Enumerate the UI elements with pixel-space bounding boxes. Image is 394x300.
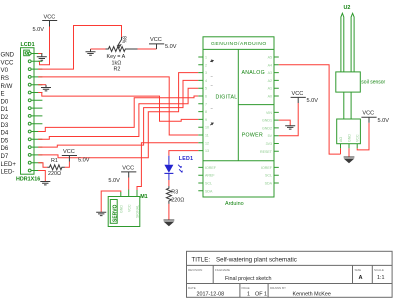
svg-text:SDA: SDA bbox=[205, 189, 213, 193]
wire servo VCC to VCC4 bbox=[128, 178, 130, 190]
svg-text:A3: A3 bbox=[268, 71, 272, 75]
wire module AO pin down to analog wire bbox=[340, 148, 342, 154]
svg-text:12: 12 bbox=[205, 141, 209, 145]
wire LCD GND pin to ground bbox=[38, 53, 42, 55]
svg-text:Final project sketch: Final project sketch bbox=[225, 276, 271, 282]
wire LCD R/W to ground bbox=[38, 84, 46, 86]
svg-text:DATE: DATE bbox=[188, 286, 196, 290]
wire servo GND to ground bbox=[101, 191, 121, 212]
wire LCD RS to Arduino pin11 bbox=[38, 77, 198, 135]
LCD pin stubs and hole circles bbox=[28, 52, 42, 172]
power VCC3 (5.0V) at R1 bbox=[62, 149, 90, 163]
svg-text:IOREF: IOREF bbox=[205, 166, 217, 170]
svg-text:3: 3 bbox=[205, 71, 207, 75]
connector LCD1 HDR1X16 bbox=[16, 42, 40, 183]
Arduino PWM tilde marks bbox=[210, 60, 213, 125]
wire module GND to ground bbox=[348, 148, 350, 157]
IC Arduino GENUINO/ARDUINO module bbox=[203, 37, 274, 207]
svg-text:AREF: AREF bbox=[205, 174, 215, 178]
svg-text:AO: AO bbox=[339, 137, 343, 142]
svg-text:7: 7 bbox=[205, 102, 207, 106]
svg-text:D3: D3 bbox=[1, 122, 9, 129]
resistor R1 220ohm bbox=[47, 158, 65, 177]
svg-text:SIZE: SIZE bbox=[355, 268, 362, 272]
svg-text:ANALOG: ANALOG bbox=[242, 70, 265, 76]
power VCC1 (5.0V) top-left bbox=[33, 15, 58, 34]
wire probes to module bbox=[344, 92, 351, 119]
svg-text:A1: A1 bbox=[268, 87, 272, 91]
svg-text:1: 1 bbox=[247, 292, 250, 298]
wire LCD D4 to Arduino pin6 bbox=[38, 96, 198, 132]
ground GND6 (below R3) bbox=[164, 220, 175, 226]
svg-text:VCC: VCC bbox=[122, 165, 134, 171]
Arduino bottom-left pin labels bbox=[205, 166, 217, 193]
svg-text:POWER: POWER bbox=[242, 133, 263, 139]
sensor module box (soil sensor amplifier) bbox=[337, 119, 361, 148]
svg-text:2: 2 bbox=[205, 63, 207, 67]
motor M1 servo bbox=[108, 194, 148, 227]
Arduino power pin labels bbox=[260, 111, 273, 154]
svg-text:5V: 5V bbox=[268, 134, 273, 138]
wire LCD LED+ to R1 bbox=[38, 163, 47, 168]
svg-text:220Ω: 220Ω bbox=[48, 171, 61, 177]
svg-text:LCD1: LCD1 bbox=[21, 42, 35, 48]
svg-text:VCC: VCC bbox=[150, 37, 162, 43]
potentiometer R2 1k Key=A bbox=[106, 36, 138, 73]
svg-text:GND1: GND1 bbox=[262, 119, 272, 123]
Arduino digital pin stubs (left) bbox=[198, 57, 203, 151]
svg-text:FILENAME: FILENAME bbox=[215, 268, 230, 272]
svg-text:5.0V: 5.0V bbox=[378, 118, 390, 124]
svg-text:U2: U2 bbox=[344, 5, 351, 11]
svg-text:9: 9 bbox=[205, 118, 207, 122]
svg-text:DIGITAL: DIGITAL bbox=[216, 95, 238, 101]
svg-text:M1: M1 bbox=[140, 194, 148, 200]
svg-text:R/W: R/W bbox=[1, 83, 13, 90]
Arduino digital pin number labels bbox=[205, 56, 209, 154]
svg-text:220Ω: 220Ω bbox=[171, 198, 184, 204]
svg-text:REVISION: REVISION bbox=[188, 268, 202, 272]
svg-text:Kenneth McKee: Kenneth McKee bbox=[293, 292, 331, 298]
svg-text:PAGE: PAGE bbox=[242, 286, 250, 290]
wire R3 to ground bbox=[168, 204, 170, 220]
svg-text:E: E bbox=[1, 91, 5, 98]
svg-text:Self-watering plant schematic: Self-watering plant schematic bbox=[216, 257, 297, 264]
Arduino bottom-left pin stubs bbox=[198, 167, 203, 190]
ground GND7 (module) bbox=[344, 157, 355, 163]
ground GND5 (servo) bbox=[96, 212, 106, 215]
power VCC2 (5.0V) at R2 bbox=[149, 37, 177, 50]
wire Arduino pin13 to LED1 bbox=[169, 151, 198, 156]
svg-text:D7: D7 bbox=[1, 153, 9, 160]
svg-text:SCL: SCL bbox=[265, 174, 272, 178]
sensor U2 soil sensor probes bbox=[336, 5, 386, 92]
svg-text:8: 8 bbox=[205, 110, 207, 114]
ground GND1 (at LCD GND pin) bbox=[37, 54, 47, 61]
svg-text:D6: D6 bbox=[1, 145, 9, 152]
svg-text:IOREF: IOREF bbox=[261, 166, 273, 170]
svg-text:GND2: GND2 bbox=[262, 126, 272, 130]
svg-text:5.0V: 5.0V bbox=[33, 27, 45, 33]
svg-text:5.0V: 5.0V bbox=[78, 158, 90, 164]
svg-text:VCC: VCC bbox=[1, 59, 14, 66]
Arduino analog pin labels bbox=[268, 56, 272, 99]
svg-text:2017-12-08: 2017-12-08 bbox=[197, 292, 225, 298]
svg-text:Arduino: Arduino bbox=[225, 201, 244, 207]
svg-text:GND: GND bbox=[1, 52, 15, 59]
svg-text:LED1: LED1 bbox=[179, 156, 193, 162]
svg-text:11: 11 bbox=[205, 134, 209, 138]
svg-text:5: 5 bbox=[205, 87, 207, 91]
Arduino analog pin stubs (right) bbox=[274, 57, 279, 96]
svg-text:GND: GND bbox=[348, 134, 352, 142]
Arduino power pin stubs (right) bbox=[274, 112, 279, 151]
wire R2 right to VCC2 bbox=[138, 48, 157, 50]
svg-text:Key = A: Key = A bbox=[107, 54, 126, 60]
svg-text:R3: R3 bbox=[171, 189, 178, 195]
power VCC4 (5.0V) at servo bbox=[108, 165, 136, 183]
wire module VCC to VCC6 bbox=[357, 123, 369, 150]
wire LCD D5 to Arduino pin5 bbox=[38, 88, 198, 139]
svg-text:10: 10 bbox=[205, 126, 209, 130]
ground GND4 (LED backlight) bbox=[40, 182, 50, 185]
svg-text:3V3: 3V3 bbox=[266, 142, 272, 146]
svg-text:D5: D5 bbox=[1, 137, 9, 144]
wire ground to R2 left bbox=[91, 48, 106, 50]
svg-text:SDA: SDA bbox=[265, 182, 273, 186]
svg-text:RS: RS bbox=[1, 75, 9, 82]
svg-text:SIGNAL: SIGNAL bbox=[136, 205, 140, 218]
svg-text:VCC: VCC bbox=[128, 204, 132, 212]
title block bbox=[187, 251, 393, 297]
svg-text:GENUINO/ARDUINO: GENUINO/ARDUINO bbox=[211, 41, 267, 47]
wire R1 to VCC3 bbox=[65, 162, 70, 168]
svg-text:HDR1X16: HDR1X16 bbox=[16, 177, 40, 183]
svg-text:A: A bbox=[359, 275, 363, 281]
wire LCD D6 to Arduino pin4 bbox=[38, 80, 198, 147]
wire Arduino analog pin to soil sensor module bbox=[279, 65, 341, 154]
wire LCD D7 to Arduino pin3 bbox=[38, 73, 198, 158]
svg-text:D2: D2 bbox=[1, 114, 9, 121]
Arduino bottom-right pin labels bbox=[261, 166, 273, 186]
wire LCD LED- to ground bbox=[38, 171, 45, 182]
svg-text:R2: R2 bbox=[114, 67, 121, 73]
wire LCD E to Arduino pin9 bbox=[38, 93, 198, 122]
svg-text:5.0V: 5.0V bbox=[108, 178, 120, 184]
wire Arduino GND1 to ground bbox=[279, 120, 290, 126]
svg-text:RESET: RESET bbox=[260, 150, 273, 154]
svg-text:A0: A0 bbox=[268, 95, 272, 99]
LCD pin name labels column bbox=[1, 52, 17, 176]
svg-text:LED-: LED- bbox=[1, 169, 15, 176]
ground GND3 (at R/W pin) bbox=[41, 85, 51, 91]
Arduino bottom-right pin stubs bbox=[274, 167, 279, 183]
power VCC5 (5.0V) at Arduino 5V bbox=[291, 91, 319, 104]
wire VCC1 to LCD VCC pin bbox=[38, 27, 49, 65]
ground GND8 (Arduino GND1) bbox=[285, 126, 295, 129]
svg-text:A4: A4 bbox=[268, 63, 272, 67]
svg-text:D1: D1 bbox=[1, 106, 9, 113]
ground GND2 (left of R2) bbox=[86, 49, 96, 55]
svg-text:SCALE: SCALE bbox=[374, 268, 384, 272]
svg-text:1kΩ: 1kΩ bbox=[112, 60, 122, 66]
svg-text:DRAWN BY: DRAWN BY bbox=[270, 286, 286, 290]
svg-text:D0: D0 bbox=[1, 98, 9, 105]
svg-text:13: 13 bbox=[205, 149, 209, 153]
svg-text:1:1: 1:1 bbox=[377, 275, 385, 281]
svg-text:A2: A2 bbox=[268, 79, 272, 83]
svg-text:TITLE:: TITLE: bbox=[192, 257, 211, 264]
svg-text:VCC: VCC bbox=[44, 15, 56, 21]
svg-text:V0: V0 bbox=[1, 67, 9, 74]
svg-text:5.0V: 5.0V bbox=[307, 98, 319, 104]
svg-text:1: 1 bbox=[205, 56, 207, 60]
svg-text:8%: 8% bbox=[120, 36, 126, 44]
wire LCD V0 to R2 wiper bbox=[38, 26, 121, 70]
svg-text:4: 4 bbox=[205, 79, 207, 83]
svg-text:6: 6 bbox=[205, 95, 207, 99]
svg-text:5.0V: 5.0V bbox=[165, 44, 177, 50]
LED LED1 (blue) bbox=[164, 156, 193, 180]
resistor R3 220ohm (vertical) bbox=[166, 186, 184, 204]
wire LED1 to R3 bbox=[168, 180, 170, 186]
power VCC6 (5.0V) at module bbox=[361, 111, 389, 124]
svg-text:soil sensor: soil sensor bbox=[361, 80, 385, 86]
svg-text:VCC: VCC bbox=[63, 149, 75, 155]
wire Arduino 5V to VCC5 bbox=[279, 103, 298, 136]
svg-text:VCC: VCC bbox=[292, 91, 304, 97]
svg-text:GND: GND bbox=[120, 205, 124, 213]
svg-text:R1: R1 bbox=[51, 158, 58, 164]
svg-text:D4: D4 bbox=[1, 130, 9, 137]
svg-text:LED+: LED+ bbox=[1, 161, 17, 168]
wire Arduino pin12 to servo signal bbox=[137, 143, 198, 190]
svg-text:OF 1: OF 1 bbox=[255, 292, 267, 298]
svg-text:SCL: SCL bbox=[205, 182, 212, 186]
svg-text:A5: A5 bbox=[268, 56, 272, 60]
svg-text:SERVO: SERVO bbox=[112, 204, 118, 222]
svg-text:VCC: VCC bbox=[356, 134, 360, 142]
svg-text:VIN: VIN bbox=[266, 111, 272, 115]
svg-text:VCC: VCC bbox=[362, 111, 374, 117]
